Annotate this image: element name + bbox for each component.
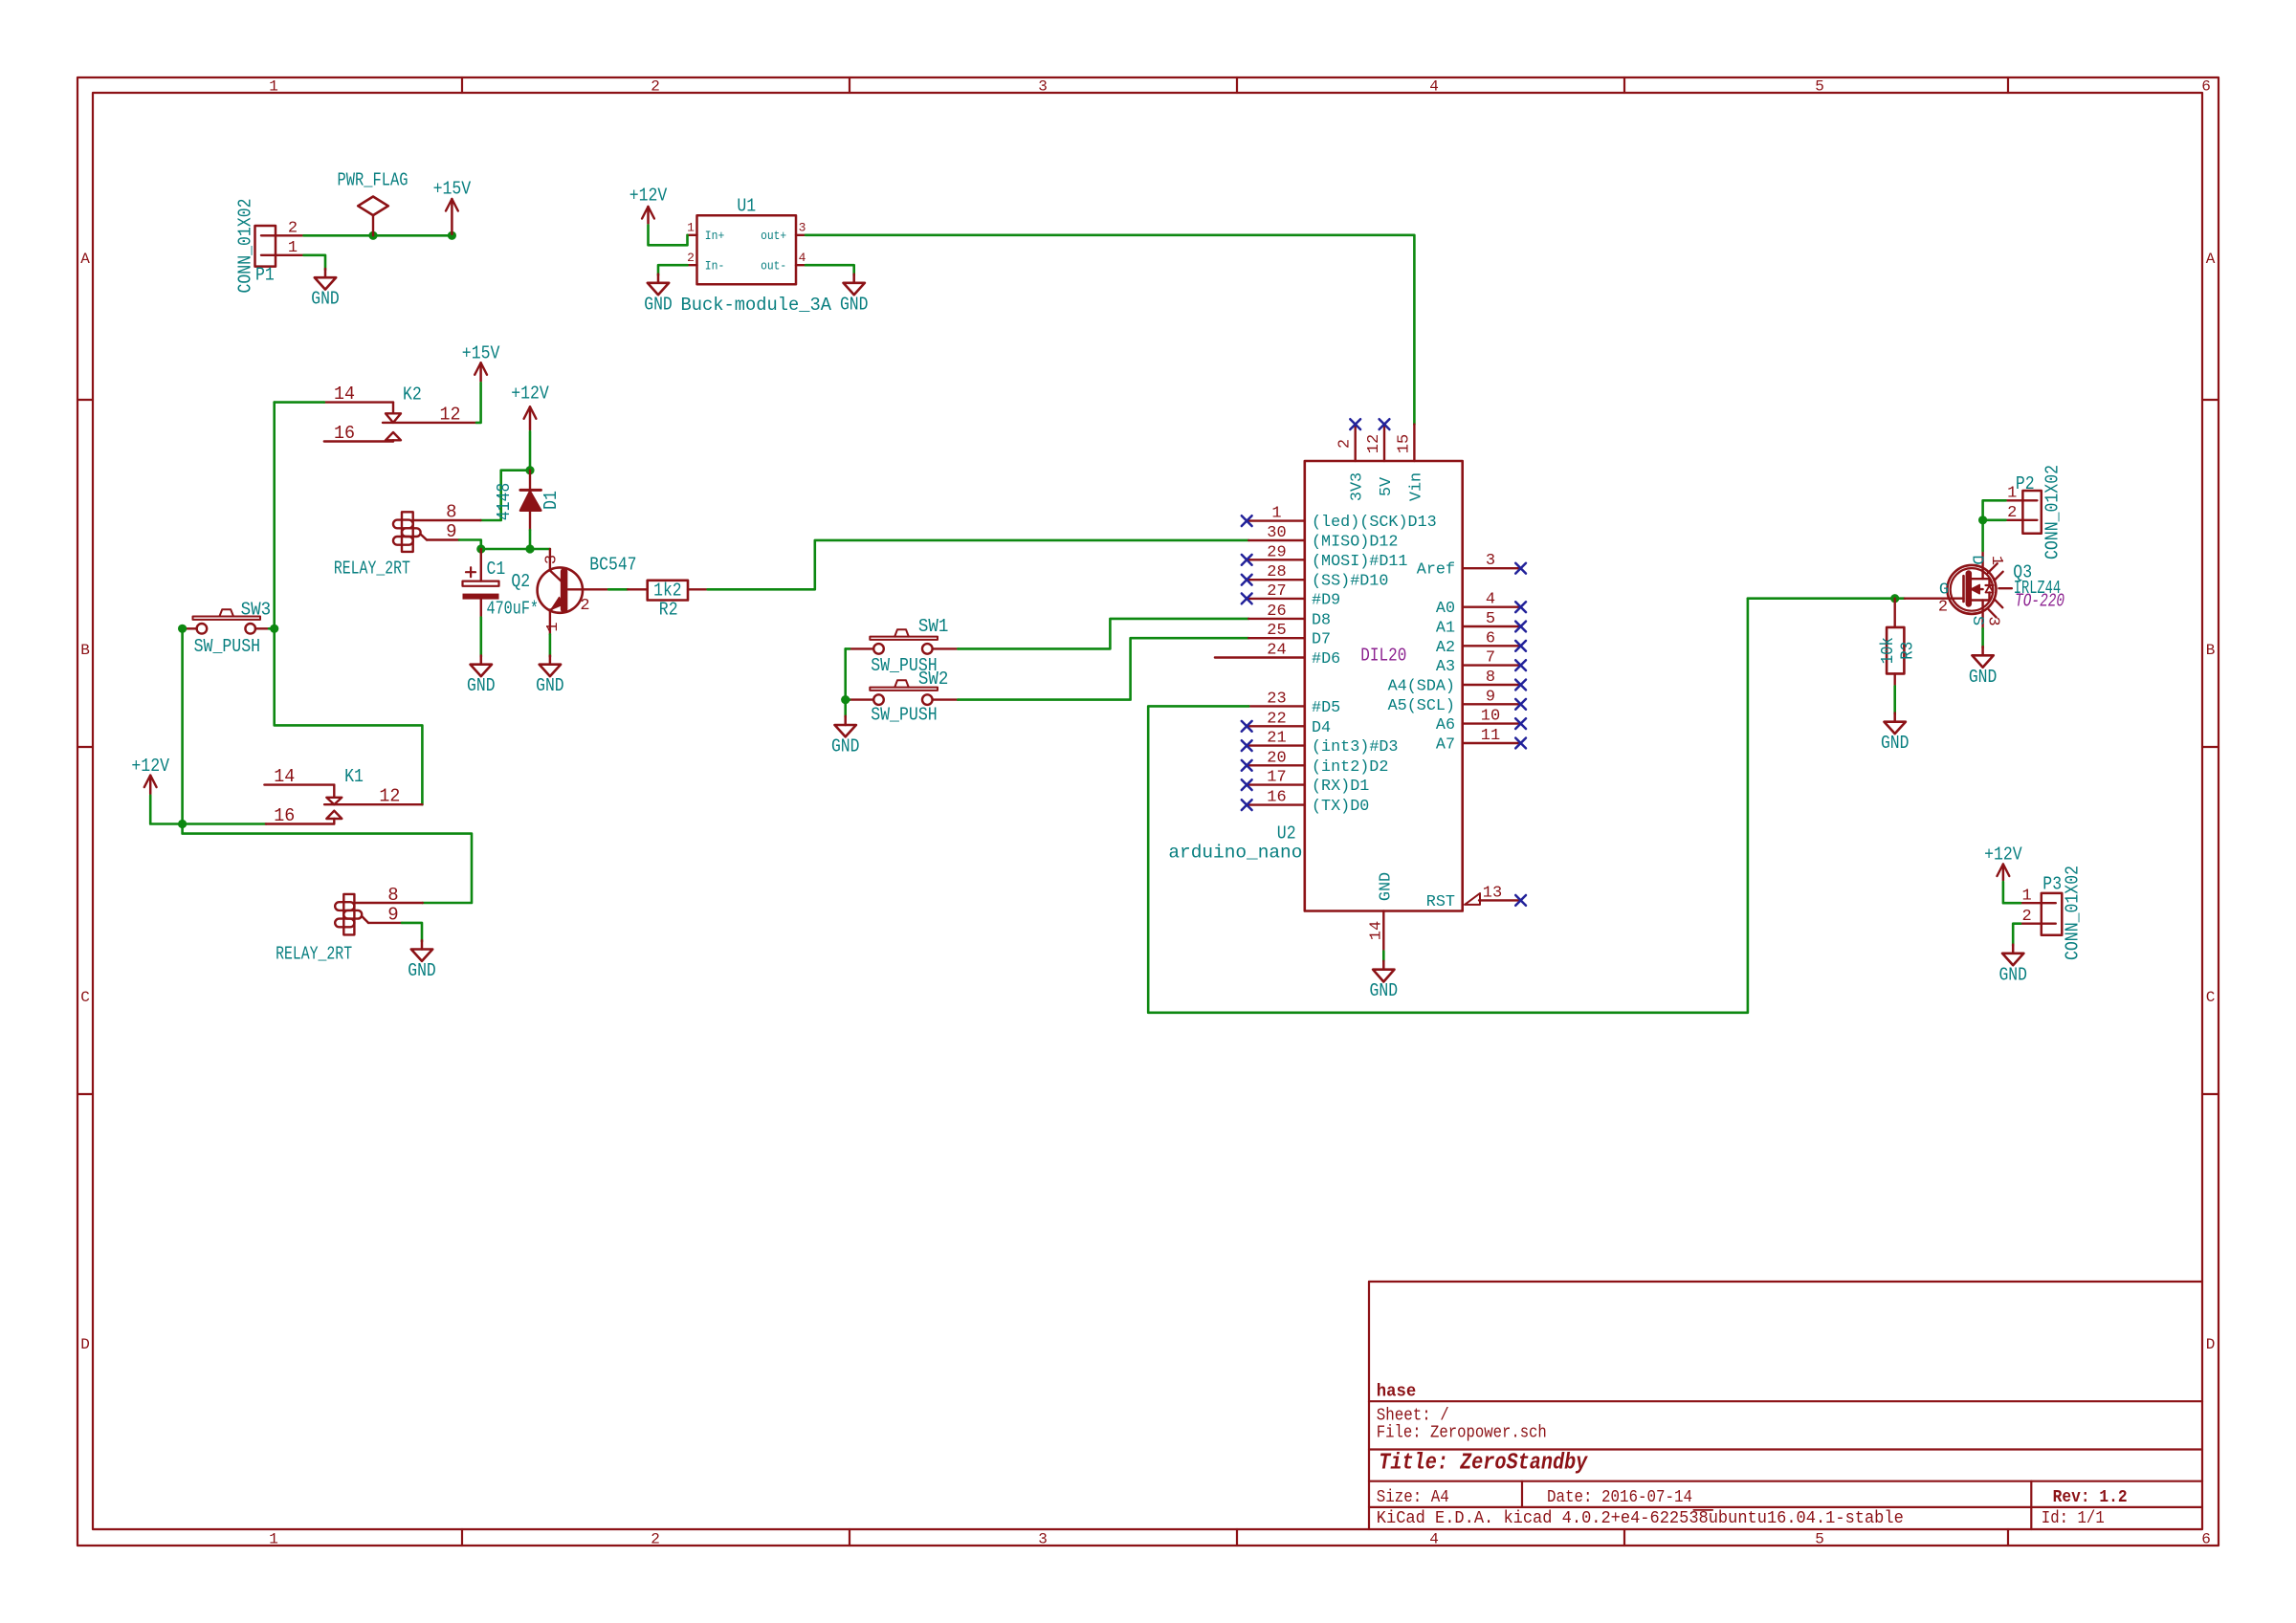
wire U2 pin23 to Q3 gate xyxy=(1148,599,1905,1013)
junction xyxy=(178,820,187,828)
wire U1 In- to ground xyxy=(658,265,688,274)
svg-text:1: 1 xyxy=(2021,888,2031,906)
svg-text:GND: GND xyxy=(467,675,496,696)
wire R3 to ground xyxy=(1893,686,1896,713)
junction xyxy=(448,231,456,240)
svg-text:SW2: SW2 xyxy=(918,669,949,690)
svg-text:out-: out- xyxy=(761,259,786,274)
svg-text:2: 2 xyxy=(580,597,589,615)
svg-text:2: 2 xyxy=(2021,908,2031,926)
svg-text:15: 15 xyxy=(1395,434,1413,453)
svg-text:6: 6 xyxy=(1486,629,1495,647)
svg-text:D4: D4 xyxy=(1312,719,1331,737)
svg-text:Rev: 1.2: Rev: 1.2 xyxy=(2053,1488,2128,1507)
svg-text:A0: A0 xyxy=(1436,600,1455,618)
power +12V xyxy=(1984,844,2022,881)
junction xyxy=(525,544,534,553)
svg-text:10k: 10k xyxy=(1879,637,1898,664)
svg-text:3: 3 xyxy=(1038,1531,1048,1548)
svg-text:13: 13 xyxy=(1483,884,1502,902)
svg-text:out+: out+ xyxy=(761,229,786,243)
svg-text:#D9: #D9 xyxy=(1312,591,1340,609)
svg-text:17: 17 xyxy=(1267,769,1286,787)
svg-text:20: 20 xyxy=(1267,749,1286,767)
relay contact K1 xyxy=(264,766,422,826)
ground xyxy=(840,274,869,316)
svg-text:26: 26 xyxy=(1267,603,1286,621)
svg-text:5: 5 xyxy=(1815,1531,1824,1548)
wire C1 to ground xyxy=(479,618,482,657)
wire +12V to relay K1 pin16 xyxy=(150,796,266,824)
svg-text:(RX)D1: (RX)D1 xyxy=(1312,778,1369,796)
svg-text:(int3)#D3: (int3)#D3 xyxy=(1312,738,1399,757)
svg-text:(int2)D2: (int2)D2 xyxy=(1312,758,1388,777)
svg-text:Title: ZeroStandby: Title: ZeroStandby xyxy=(1379,1451,1588,1477)
relay coil K2 RELAY_2RT xyxy=(334,502,481,580)
svg-text:K2: K2 xyxy=(403,384,422,405)
svg-text:#D6: #D6 xyxy=(1312,650,1340,669)
wire node horizontal xyxy=(481,548,550,551)
svg-text:29: 29 xyxy=(1267,543,1286,561)
svg-text:12: 12 xyxy=(1365,434,1383,453)
junction xyxy=(368,231,377,240)
wire +12V to P3 pin1 xyxy=(2003,882,2020,903)
svg-text:23: 23 xyxy=(1267,690,1286,708)
wire P2 to Q3 drain xyxy=(1983,500,2006,551)
ground xyxy=(644,274,673,316)
wire P1 pin2 net xyxy=(304,234,453,237)
svg-text:Q2: Q2 xyxy=(511,571,530,592)
svg-text:D7: D7 xyxy=(1312,631,1331,649)
svg-text:C: C xyxy=(2206,989,2216,1006)
wire +12V to D1 node xyxy=(529,431,532,471)
capacitor C1 470uF* xyxy=(463,549,540,620)
svg-text:GND: GND xyxy=(644,294,673,315)
svg-text:A2: A2 xyxy=(1436,639,1455,657)
ground xyxy=(831,716,860,757)
svg-text:12: 12 xyxy=(440,404,461,425)
svg-text:File: Zeropower.sch: File: Zeropower.sch xyxy=(1377,1423,1547,1442)
svg-text:24: 24 xyxy=(1267,642,1286,660)
svg-text:22: 22 xyxy=(1267,710,1286,728)
svg-text:28: 28 xyxy=(1267,563,1286,581)
svg-text:A7: A7 xyxy=(1436,736,1455,755)
switch SW1 SW_PUSH xyxy=(850,616,958,676)
wire SW3 right stub xyxy=(269,627,275,630)
diode D1 4148 xyxy=(494,471,562,531)
svg-text:D1: D1 xyxy=(541,491,562,510)
svg-text:4148: 4148 xyxy=(494,483,515,521)
power +15V xyxy=(433,179,472,234)
svg-text:D: D xyxy=(2206,1336,2216,1353)
wire relay K1 pin9 to ground xyxy=(402,923,422,941)
svg-text:P3: P3 xyxy=(2042,873,2062,894)
power +15V xyxy=(462,343,500,382)
svg-text:+15V: +15V xyxy=(462,343,500,364)
svg-text:CONN_01X02: CONN_01X02 xyxy=(2042,465,2064,559)
svg-text:RELAY_2RT: RELAY_2RT xyxy=(334,558,410,579)
svg-text:G: G xyxy=(1939,581,1949,600)
switch SW2 SW_PUSH xyxy=(850,669,958,725)
svg-text:GND: GND xyxy=(1998,964,2027,985)
svg-text:RST: RST xyxy=(1426,893,1455,911)
svg-text:GND: GND xyxy=(536,675,564,696)
svg-text:+12V: +12V xyxy=(629,186,668,207)
svg-text:11: 11 xyxy=(1481,727,1500,745)
svg-text:B: B xyxy=(2206,642,2216,659)
svg-text:BC547: BC547 xyxy=(589,554,636,575)
junction xyxy=(525,466,534,474)
svg-text:A: A xyxy=(2206,251,2216,268)
wire SW3 to +12V net xyxy=(181,628,184,823)
svg-text:16: 16 xyxy=(274,805,295,826)
svg-text:GND: GND xyxy=(831,736,860,757)
svg-text:1: 1 xyxy=(269,78,278,96)
resistor R3 10k xyxy=(1879,599,1918,687)
svg-text:SW1: SW1 xyxy=(918,616,949,637)
svg-text:PWR_FLAG: PWR_FLAG xyxy=(338,170,408,191)
svg-text:+12V: +12V xyxy=(511,384,549,405)
svg-text:3: 3 xyxy=(1984,616,2002,625)
svg-text:C1: C1 xyxy=(487,559,506,580)
wire relay K2 pin9 to node xyxy=(459,540,481,550)
svg-text:3: 3 xyxy=(799,221,806,235)
svg-text:A4(SDA): A4(SDA) xyxy=(1388,678,1455,696)
svg-text:(SS)#D10: (SS)#D10 xyxy=(1312,573,1388,591)
svg-text:2: 2 xyxy=(1336,439,1355,449)
svg-text:GND: GND xyxy=(1969,667,1998,688)
svg-text:16: 16 xyxy=(1267,789,1286,807)
wire +12V to U1 In+ xyxy=(649,225,688,245)
svg-text:4: 4 xyxy=(1429,1531,1439,1548)
relay contact K2 xyxy=(324,384,476,444)
wire SW1 to U2 pin26 xyxy=(958,619,1248,649)
svg-text:1: 1 xyxy=(269,1531,278,1548)
svg-text:GND: GND xyxy=(1377,872,1395,901)
svg-text:9: 9 xyxy=(387,905,398,926)
svg-text:Id: 1/1: Id: 1/1 xyxy=(2042,1509,2105,1528)
connector P3 xyxy=(2020,866,2084,960)
junction xyxy=(1890,594,1899,603)
svg-text:21: 21 xyxy=(1267,730,1286,748)
svg-text:In-: In- xyxy=(705,259,725,274)
wire P3 pin2 to ground xyxy=(2013,924,2020,946)
svg-text:3: 3 xyxy=(1038,78,1048,96)
relay coil K1 RELAY_2RT xyxy=(276,885,423,965)
ground xyxy=(1370,961,1399,1001)
junction xyxy=(841,695,850,704)
svg-text:Buck-module_3A: Buck-module_3A xyxy=(681,295,832,316)
svg-text:2: 2 xyxy=(288,219,298,237)
svg-text:12: 12 xyxy=(379,786,400,807)
svg-text:8: 8 xyxy=(446,502,456,523)
svg-text:D: D xyxy=(1968,555,1986,564)
wire SW1 to SW2 xyxy=(846,648,850,699)
svg-text:(TX)D0: (TX)D0 xyxy=(1312,798,1369,816)
svg-text:CONN_01X02: CONN_01X02 xyxy=(235,199,256,294)
svg-text:2: 2 xyxy=(687,251,695,265)
junction xyxy=(178,625,187,633)
svg-text:hase: hase xyxy=(1377,1383,1417,1402)
svg-text:25: 25 xyxy=(1267,622,1286,640)
svg-text:+12V: +12V xyxy=(131,756,169,777)
svg-text:14: 14 xyxy=(1368,921,1386,940)
wire SW2 to ground xyxy=(844,700,847,717)
svg-text:6: 6 xyxy=(2201,1531,2211,1548)
wire U1 out+ to U2 Vin xyxy=(806,235,1414,425)
svg-text:7: 7 xyxy=(1486,649,1495,668)
wire node to relay K1 coil pin8 xyxy=(183,824,472,904)
svg-text:16: 16 xyxy=(334,423,355,444)
svg-text:In+: In+ xyxy=(705,229,725,243)
svg-text:(led)(SCK)D13: (led)(SCK)D13 xyxy=(1312,514,1437,532)
svg-text:5: 5 xyxy=(1815,78,1824,96)
connector P2 xyxy=(2006,465,2064,559)
svg-text:GND: GND xyxy=(1370,980,1399,1001)
svg-text:Aref: Aref xyxy=(1417,561,1455,580)
svg-text:3V3: 3V3 xyxy=(1349,472,1367,501)
svg-text:DIL20: DIL20 xyxy=(1360,646,1406,667)
svg-text:1: 1 xyxy=(544,622,563,631)
ground xyxy=(1881,713,1910,755)
svg-text:D8: D8 xyxy=(1312,611,1331,629)
svg-text:+15V: +15V xyxy=(433,179,472,200)
wire SW3 net vertical xyxy=(275,403,423,805)
svg-text:1: 1 xyxy=(1987,556,2005,565)
svg-text:A5(SCL): A5(SCL) xyxy=(1388,697,1455,715)
svg-text:1k2: 1k2 xyxy=(653,580,682,601)
wire R2 to U2 pin30 xyxy=(708,540,1249,589)
mosfet Q3 IRLZ44 xyxy=(1905,551,2064,628)
svg-text:30: 30 xyxy=(1267,524,1286,542)
svg-text:RELAY_2RT: RELAY_2RT xyxy=(276,944,352,965)
svg-text:1: 1 xyxy=(1271,505,1281,523)
transistor Q2 BC547 xyxy=(511,549,636,634)
switch SW3 SW_PUSH xyxy=(184,599,271,657)
svg-text:R3: R3 xyxy=(1899,642,1918,660)
svg-text:KiCad E.D.A. kicad 4.0.2+e4-6: KiCad E.D.A. kicad 4.0.2+e4-622538ubuntu… xyxy=(1377,1509,1904,1528)
svg-text:(MISO)D12: (MISO)D12 xyxy=(1312,534,1399,552)
junction xyxy=(270,625,278,633)
svg-text:14: 14 xyxy=(274,766,295,787)
svg-text:3: 3 xyxy=(1486,552,1495,570)
svg-text:Size: A4: Size: A4 xyxy=(1377,1488,1449,1507)
wire SW2 to U2 pin25 xyxy=(958,638,1248,699)
wire Q2 emitter to ground xyxy=(549,634,552,656)
svg-text:27: 27 xyxy=(1267,582,1286,601)
svg-text:9: 9 xyxy=(1486,688,1495,706)
svg-text:4: 4 xyxy=(1486,591,1495,609)
svg-text:6: 6 xyxy=(2201,78,2211,96)
svg-text:4: 4 xyxy=(1429,78,1439,96)
ground xyxy=(311,269,340,310)
svg-text:A1: A1 xyxy=(1436,620,1455,638)
wire P1 pin1 to ground xyxy=(304,255,326,270)
svg-text:3: 3 xyxy=(543,555,562,564)
svg-text:SW3: SW3 xyxy=(241,599,272,620)
wire Q3 source to ground xyxy=(1981,628,1984,647)
svg-text:2: 2 xyxy=(651,1531,660,1548)
svg-text:2: 2 xyxy=(1938,598,1948,616)
wire Q2 base to R2 xyxy=(608,588,628,591)
wire U2 GND pin xyxy=(1382,952,1385,961)
svg-text:arduino_nano: arduino_nano xyxy=(1168,842,1302,863)
svg-text:A6: A6 xyxy=(1436,716,1455,735)
svg-text:5V: 5V xyxy=(1378,476,1396,496)
svg-text:CONN_01X02: CONN_01X02 xyxy=(2063,866,2084,960)
svg-text:5: 5 xyxy=(1486,610,1495,628)
svg-text:9: 9 xyxy=(446,521,456,542)
regulator U1 Buck-module_3A xyxy=(681,196,832,317)
svg-text:GND: GND xyxy=(311,289,340,310)
wire D1 to node xyxy=(529,530,532,549)
svg-text:10: 10 xyxy=(1481,708,1500,726)
svg-text:K1: K1 xyxy=(344,766,364,787)
svg-text:R2: R2 xyxy=(659,600,678,621)
svg-text:TO-220: TO-220 xyxy=(2015,591,2064,612)
resistor R2 1k2 xyxy=(628,580,707,620)
svg-text:P2: P2 xyxy=(2016,473,2035,494)
ground xyxy=(536,656,564,697)
svg-text:Vin: Vin xyxy=(1407,472,1425,501)
svg-text:SW_PUSH: SW_PUSH xyxy=(194,636,261,657)
no-connect X marks xyxy=(1242,419,1526,906)
svg-text:Date: 2016-07-14: Date: 2016-07-14 xyxy=(1547,1488,1692,1507)
power flag PWR_FLAG xyxy=(338,170,408,236)
ground xyxy=(1998,945,2027,986)
svg-text:GND: GND xyxy=(408,960,436,981)
junction xyxy=(1978,515,1987,524)
wire U1 out- to ground xyxy=(806,265,854,274)
svg-text:S: S xyxy=(1968,616,1986,625)
svg-text:#D5: #D5 xyxy=(1312,699,1340,717)
ground xyxy=(467,656,496,697)
power +12V xyxy=(131,756,169,794)
svg-text:8: 8 xyxy=(1486,669,1495,687)
IC U2 arduino_nano xyxy=(1168,425,1518,952)
power +12V xyxy=(629,186,668,224)
svg-text:4: 4 xyxy=(799,251,806,265)
svg-text:14: 14 xyxy=(334,384,355,405)
svg-text:1: 1 xyxy=(288,239,298,257)
svg-text:SW_PUSH: SW_PUSH xyxy=(871,704,938,725)
svg-text:2: 2 xyxy=(2007,504,2017,522)
wire node to relay K2 pin8 xyxy=(481,471,531,520)
svg-text:1: 1 xyxy=(687,221,695,235)
svg-text:D: D xyxy=(80,1336,90,1353)
svg-text:GND: GND xyxy=(1881,733,1910,754)
svg-text:470uF*: 470uF* xyxy=(487,599,540,620)
power +12V xyxy=(511,384,549,430)
svg-text:U1: U1 xyxy=(737,196,756,217)
ground xyxy=(408,940,436,981)
svg-text:C: C xyxy=(80,989,90,1006)
svg-text:P1: P1 xyxy=(255,265,275,286)
svg-text:A: A xyxy=(80,251,90,268)
svg-text:A3: A3 xyxy=(1436,658,1455,676)
svg-text:2: 2 xyxy=(651,78,660,96)
wire K2 pin12 to +15V xyxy=(476,383,481,423)
junction xyxy=(476,544,485,553)
svg-text:B: B xyxy=(80,642,90,659)
svg-text:8: 8 xyxy=(387,885,398,906)
connector P1 xyxy=(235,199,304,294)
ground xyxy=(1969,647,1998,688)
svg-text:GND: GND xyxy=(840,294,869,315)
svg-text:(MOSI)#D11: (MOSI)#D11 xyxy=(1312,553,1408,571)
svg-text:+12V: +12V xyxy=(1984,844,2022,866)
